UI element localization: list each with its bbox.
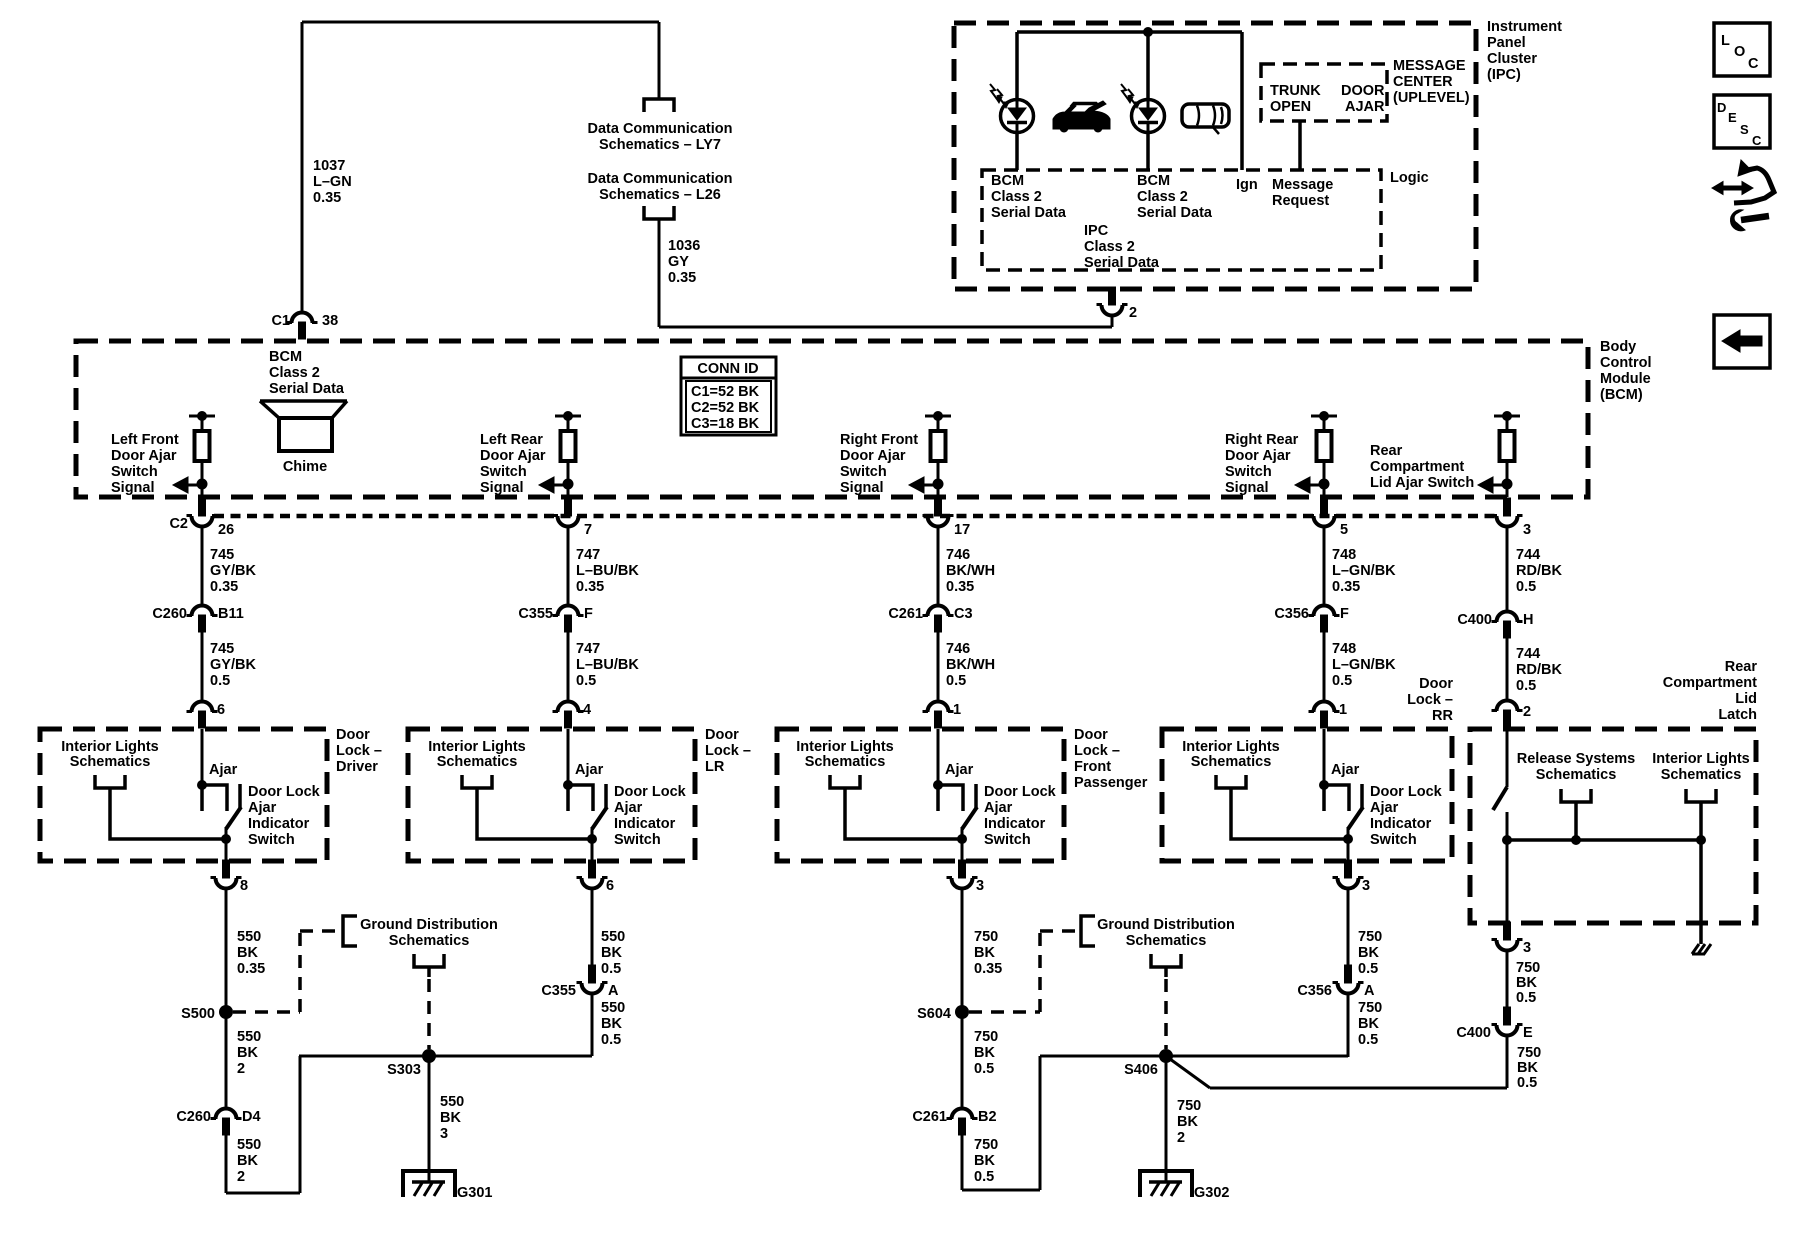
svg-text:Schematics: Schematics [1191,754,1272,770]
svg-text:C: C [1748,56,1759,72]
svg-text:(BCM): (BCM) [1600,387,1643,403]
svg-text:0.5: 0.5 [946,673,966,689]
svg-text:Schematics: Schematics [1661,767,1742,783]
svg-text:Indicator: Indicator [1370,816,1432,832]
svg-text:Cluster: Cluster [1487,51,1537,67]
svg-text:750: 750 [1177,1098,1201,1114]
svg-text:A: A [608,983,619,999]
svg-text:Left Front: Left Front [111,432,179,448]
svg-text:F: F [1340,606,1349,622]
svg-text:3: 3 [440,1126,448,1142]
svg-text:BK: BK [1517,1060,1538,1076]
svg-text:BCM: BCM [269,349,302,365]
svg-text:BK: BK [1516,975,1537,991]
svg-text:D: D [1717,100,1726,115]
svg-text:Schematics: Schematics [389,933,470,949]
svg-text:747: 747 [576,641,600,657]
svg-text:550: 550 [237,929,261,945]
svg-text:Passenger: Passenger [1074,775,1148,791]
svg-text:C2: C2 [169,516,188,532]
svg-text:Ground Distribution: Ground Distribution [1097,917,1235,933]
svg-text:26: 26 [218,522,234,538]
svg-text:BK: BK [974,1153,995,1169]
svg-text:17: 17 [954,522,970,538]
svg-text:0.5: 0.5 [1516,678,1536,694]
svg-text:Serial Data: Serial Data [1137,205,1213,221]
svg-text:Compartment: Compartment [1663,675,1757,691]
svg-text:Schematics – LY7: Schematics – LY7 [599,137,721,153]
svg-text:O: O [1734,44,1745,60]
svg-text:Instrument: Instrument [1487,19,1562,35]
svg-text:Class 2: Class 2 [991,189,1042,205]
svg-text:Rear: Rear [1370,443,1403,459]
svg-text:750: 750 [1517,1045,1541,1061]
svg-text:Data Communication: Data Communication [587,171,732,187]
svg-text:Signal: Signal [1225,480,1269,496]
svg-text:0.5: 0.5 [1332,673,1352,689]
svg-text:0.5: 0.5 [576,673,596,689]
svg-text:L–BU/BK: L–BU/BK [576,563,639,579]
svg-text:BK: BK [601,1016,622,1032]
svg-text:BK/WH: BK/WH [946,563,995,579]
svg-text:750: 750 [1358,1000,1382,1016]
svg-text:Door Lock: Door Lock [984,784,1057,800]
svg-text:0.5: 0.5 [1358,961,1378,977]
svg-text:BK: BK [601,945,622,961]
svg-text:2: 2 [1129,305,1137,321]
svg-text:2: 2 [1523,704,1531,720]
svg-text:BK: BK [1177,1114,1198,1130]
svg-text:G301: G301 [457,1185,492,1201]
svg-text:Signal: Signal [480,480,524,496]
svg-text:0.35: 0.35 [237,961,265,977]
svg-text:Ajar: Ajar [575,762,604,778]
svg-text:S406: S406 [1124,1062,1158,1078]
svg-text:L–GN: L–GN [313,174,352,190]
svg-text:Lid Ajar Switch: Lid Ajar Switch [1370,475,1474,491]
svg-text:550: 550 [601,1000,625,1016]
svg-text:C356: C356 [1274,606,1309,622]
svg-text:Ajar: Ajar [945,762,974,778]
svg-text:0.5: 0.5 [1516,579,1536,595]
svg-text:Schematics: Schematics [805,754,886,770]
svg-text:Switch: Switch [111,464,158,480]
svg-text:S604: S604 [917,1006,951,1022]
svg-text:Door: Door [705,727,739,743]
svg-text:750: 750 [1358,929,1382,945]
svg-text:750: 750 [974,929,998,945]
svg-text:0.35: 0.35 [668,270,696,286]
svg-text:Ign: Ign [1236,177,1258,193]
svg-text:Ajar: Ajar [1370,800,1399,816]
svg-text:A: A [1364,983,1375,999]
svg-text:750: 750 [974,1029,998,1045]
svg-text:S303: S303 [387,1062,421,1078]
svg-text:Door Ajar: Door Ajar [111,448,177,464]
svg-text:BK: BK [237,1153,258,1169]
svg-text:Switch: Switch [614,832,661,848]
svg-text:E: E [1728,110,1737,125]
svg-text:Serial Data: Serial Data [269,381,345,397]
svg-text:6: 6 [606,878,614,894]
svg-text:Ground Distribution: Ground Distribution [360,917,498,933]
svg-text:BK: BK [440,1110,461,1126]
svg-text:S500: S500 [181,1006,215,1022]
svg-text:Schematics – L26: Schematics – L26 [599,187,721,203]
svg-text:Interior Lights: Interior Lights [1652,751,1749,767]
svg-text:B2: B2 [978,1109,997,1125]
svg-text:2: 2 [1177,1130,1185,1146]
svg-text:Door: Door [336,727,370,743]
svg-text:(UPLEVEL): (UPLEVEL) [1393,90,1470,106]
svg-text:1: 1 [953,702,961,718]
svg-text:Ajar: Ajar [984,800,1013,816]
svg-text:Ajar: Ajar [248,800,277,816]
svg-text:748: 748 [1332,547,1356,563]
svg-text:Logic: Logic [1390,170,1429,186]
svg-text:RD/BK: RD/BK [1516,563,1562,579]
svg-text:IPC: IPC [1084,223,1109,239]
svg-text:6: 6 [217,702,225,718]
svg-text:CENTER: CENTER [1393,74,1453,90]
svg-text:Signal: Signal [840,480,884,496]
svg-text:Chime: Chime [283,459,327,475]
svg-text:0.35: 0.35 [313,190,341,206]
svg-text:3: 3 [1362,878,1370,894]
svg-text:746: 746 [946,547,970,563]
svg-text:Door Ajar: Door Ajar [480,448,546,464]
svg-text:Switch: Switch [840,464,887,480]
svg-text:750: 750 [974,1137,998,1153]
svg-text:Compartment: Compartment [1370,459,1464,475]
svg-text:Interior Lights: Interior Lights [1182,739,1279,755]
svg-text:Rear: Rear [1725,659,1758,675]
svg-text:C1: C1 [271,313,290,329]
svg-text:E: E [1523,1025,1533,1041]
svg-text:Release Systems: Release Systems [1517,751,1636,767]
svg-text:C3=18 BK: C3=18 BK [691,416,760,432]
svg-text:Indicator: Indicator [248,816,310,832]
svg-text:Control: Control [1600,355,1652,371]
svg-text:C260: C260 [176,1109,211,1125]
svg-text:Door Lock: Door Lock [614,784,687,800]
svg-text:4: 4 [583,702,591,718]
svg-text:Switch: Switch [248,832,295,848]
svg-text:TRUNK: TRUNK [1270,83,1321,99]
svg-text:C400: C400 [1457,612,1492,628]
svg-text:Door Ajar: Door Ajar [840,448,906,464]
svg-text:BK: BK [237,1045,258,1061]
svg-text:8: 8 [240,878,248,894]
svg-text:Schematics: Schematics [1536,767,1617,783]
svg-text:550: 550 [440,1094,464,1110]
svg-text:Request: Request [1272,193,1329,209]
svg-text:0.5: 0.5 [1516,990,1536,1006]
svg-text:LR: LR [705,759,725,775]
svg-text:Right Front: Right Front [840,432,918,448]
svg-text:5: 5 [1340,522,1348,538]
svg-text:Schematics: Schematics [437,754,518,770]
svg-text:Driver: Driver [336,759,378,775]
svg-text:Left Rear: Left Rear [480,432,543,448]
svg-text:0.5: 0.5 [1358,1032,1378,1048]
svg-text:AJAR: AJAR [1345,99,1385,115]
svg-text:BK: BK [237,945,258,961]
svg-text:Switch: Switch [1370,832,1417,848]
svg-text:Indicator: Indicator [984,816,1046,832]
svg-text:Lock –: Lock – [1074,743,1120,759]
svg-text:Signal: Signal [111,480,155,496]
svg-text:C1=52 BK: C1=52 BK [691,384,760,400]
svg-text:L–GN/BK: L–GN/BK [1332,657,1396,673]
svg-text:C: C [1752,133,1762,148]
svg-text:GY/BK: GY/BK [210,563,256,579]
svg-text:Class 2: Class 2 [1084,239,1135,255]
svg-text:Ajar: Ajar [209,762,238,778]
svg-text:RR: RR [1432,708,1453,724]
svg-text:550: 550 [237,1029,261,1045]
svg-text:Serial Data: Serial Data [1084,255,1160,271]
svg-text:Indicator: Indicator [614,816,676,832]
svg-text:RD/BK: RD/BK [1516,662,1562,678]
svg-text:C3: C3 [954,606,973,622]
svg-text:C261: C261 [912,1109,947,1125]
svg-text:Class 2: Class 2 [269,365,320,381]
svg-text:BK: BK [1358,945,1379,961]
svg-text:C355: C355 [518,606,553,622]
svg-text:Class 2: Class 2 [1137,189,1188,205]
svg-text:0.5: 0.5 [601,1032,621,1048]
svg-text:550: 550 [601,929,625,945]
svg-text:0.5: 0.5 [601,961,621,977]
svg-text:Schematics: Schematics [1126,933,1207,949]
svg-text:Door: Door [1419,676,1453,692]
svg-text:3: 3 [1523,940,1531,956]
svg-text:744: 744 [1516,646,1540,662]
svg-text:Schematics: Schematics [70,754,151,770]
svg-text:0.35: 0.35 [576,579,604,595]
svg-text:748: 748 [1332,641,1356,657]
svg-text:MESSAGE: MESSAGE [1393,58,1466,74]
svg-text:F: F [584,606,593,622]
svg-text:Door Ajar: Door Ajar [1225,448,1291,464]
svg-text:Switch: Switch [480,464,527,480]
svg-text:B11: B11 [218,606,244,622]
svg-text:BK: BK [974,1045,995,1061]
svg-text:Interior Lights: Interior Lights [428,739,525,755]
svg-text:Ajar: Ajar [614,800,643,816]
svg-text:BCM: BCM [1137,173,1170,189]
svg-text:Right Rear: Right Rear [1225,432,1299,448]
svg-text:H: H [1523,612,1533,628]
svg-text:Lock –: Lock – [705,743,751,759]
svg-text:Lid: Lid [1735,691,1757,707]
svg-text:Lock –: Lock – [1407,692,1453,708]
svg-text:Lock –: Lock – [336,743,382,759]
svg-text:CONN ID: CONN ID [697,361,758,377]
svg-text:L–GN/BK: L–GN/BK [1332,563,1396,579]
svg-text:L: L [1721,33,1730,49]
svg-text:Front: Front [1074,759,1111,775]
svg-text:C261: C261 [888,606,923,622]
svg-text:Message: Message [1272,177,1333,193]
svg-text:Ajar: Ajar [1331,762,1360,778]
svg-text:S: S [1740,122,1749,137]
svg-text:750: 750 [1516,960,1540,976]
svg-text:Module: Module [1600,371,1651,387]
svg-text:GY: GY [668,254,689,270]
svg-text:Data Communication: Data Communication [587,121,732,137]
svg-text:D4: D4 [242,1109,261,1125]
svg-text:1037: 1037 [313,158,345,174]
svg-text:Interior Lights: Interior Lights [61,739,158,755]
svg-text:746: 746 [946,641,970,657]
svg-text:550: 550 [237,1137,261,1153]
svg-text:0.5: 0.5 [1517,1075,1537,1091]
svg-text:3: 3 [1523,522,1531,538]
svg-text:745: 745 [210,547,234,563]
svg-text:L–BU/BK: L–BU/BK [576,657,639,673]
svg-text:G302: G302 [1194,1185,1229,1201]
svg-text:0.5: 0.5 [974,1061,994,1077]
svg-text:BK/WH: BK/WH [946,657,995,673]
svg-text:GY/BK: GY/BK [210,657,256,673]
svg-text:0.35: 0.35 [946,579,974,595]
svg-text:2: 2 [237,1061,245,1077]
svg-text:745: 745 [210,641,234,657]
svg-text:0.5: 0.5 [974,1169,994,1185]
svg-text:747: 747 [576,547,600,563]
svg-text:Door Lock: Door Lock [248,784,321,800]
svg-text:C2=52 BK: C2=52 BK [691,400,760,416]
svg-text:C400: C400 [1456,1025,1491,1041]
svg-text:BK: BK [974,945,995,961]
svg-text:BCM: BCM [991,173,1024,189]
svg-text:OPEN: OPEN [1270,99,1311,115]
svg-text:Latch: Latch [1718,707,1757,723]
svg-text:38: 38 [322,313,338,329]
svg-text:C356: C356 [1297,983,1332,999]
svg-text:3: 3 [976,878,984,894]
svg-text:Interior Lights: Interior Lights [796,739,893,755]
svg-text:744: 744 [1516,547,1540,563]
svg-text:2: 2 [237,1169,245,1185]
svg-text:7: 7 [584,522,592,538]
svg-text:0.35: 0.35 [974,961,1002,977]
svg-text:Door Lock: Door Lock [1370,784,1443,800]
svg-text:Switch: Switch [984,832,1031,848]
svg-text:0.35: 0.35 [1332,579,1360,595]
svg-text:1036: 1036 [668,238,700,254]
svg-text:1: 1 [1339,702,1347,718]
svg-text:(IPC): (IPC) [1487,67,1521,83]
svg-text:Door: Door [1074,727,1108,743]
svg-text:C355: C355 [541,983,576,999]
svg-text:0.35: 0.35 [210,579,238,595]
svg-text:0.5: 0.5 [210,673,230,689]
svg-text:BK: BK [1358,1016,1379,1032]
svg-text:Panel: Panel [1487,35,1526,51]
svg-text:Serial Data: Serial Data [991,205,1067,221]
svg-text:C260: C260 [152,606,187,622]
svg-text:Switch: Switch [1225,464,1272,480]
svg-text:Body: Body [1600,339,1636,355]
svg-text:DOOR: DOOR [1341,83,1385,99]
